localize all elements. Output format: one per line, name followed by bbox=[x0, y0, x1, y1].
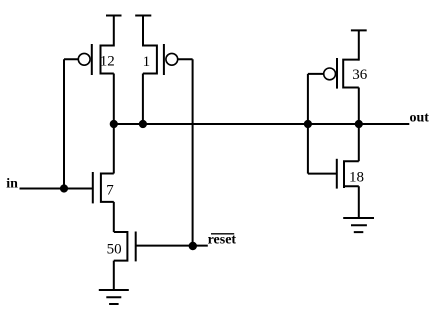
svg-text:7: 7 bbox=[106, 182, 114, 198]
svg-text:in: in bbox=[6, 177, 18, 192]
svg-text:1: 1 bbox=[143, 54, 151, 70]
svg-text:18: 18 bbox=[349, 169, 364, 185]
svg-text:reset: reset bbox=[208, 233, 237, 248]
svg-text:out: out bbox=[410, 111, 430, 126]
svg-text:12: 12 bbox=[100, 54, 115, 70]
svg-text:36: 36 bbox=[352, 67, 368, 83]
svg-text:50: 50 bbox=[107, 241, 122, 257]
